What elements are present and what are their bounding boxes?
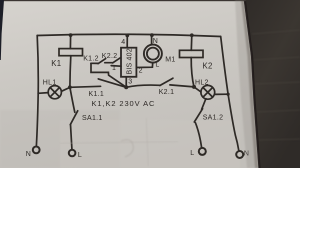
wire pin 2 run to M1	[136, 63, 152, 68]
svg-text:3: 3	[128, 78, 132, 85]
wire lead into pin 1	[111, 65, 121, 68]
lamp HL2	[201, 85, 215, 99]
svg-text:1: 1	[112, 65, 116, 72]
relay coil K2	[180, 50, 204, 57]
wire K2 feed drop	[190, 35, 193, 50]
contact K2.1 blade	[160, 78, 173, 85]
module BIS 402 box	[121, 48, 136, 77]
wire middle row left	[70, 86, 101, 87]
dark strip top edge	[0, 0, 246, 1]
svg-text:L: L	[155, 62, 159, 69]
node N dot	[150, 33, 154, 37]
dark area streaks	[252, 30, 300, 140]
svg-text:N: N	[153, 38, 158, 45]
lamp HL1	[48, 86, 61, 99]
faint ghost line horizontal	[60, 142, 178, 144]
relay coil K1	[59, 49, 83, 56]
svg-text:2: 2	[139, 68, 143, 75]
wire left border	[36, 36, 38, 146]
svg-text:4: 4	[121, 39, 125, 46]
node J4 dot	[190, 33, 194, 37]
svg-text:K1.1: K1.1	[89, 91, 105, 98]
wire K1 feed drop	[69, 35, 71, 49]
node J1 dot	[69, 33, 73, 37]
wire K2 branch vertical	[191, 58, 194, 87]
paper edge inner shade	[235, 0, 259, 168]
svg-text:M1: M1	[165, 56, 175, 63]
svg-text:L: L	[78, 152, 82, 159]
svg-text:K2: K2	[203, 61, 213, 70]
motor M1 outer circle	[144, 45, 162, 63]
svg-text:K2.1: K2.1	[159, 89, 175, 96]
svg-text:SA1.1: SA1.1	[82, 115, 103, 122]
node J7 dot	[227, 93, 230, 96]
paper sheet background	[0, 0, 300, 168]
paper shading mid	[60, 120, 240, 168]
wire HL1 left stub	[38, 92, 48, 95]
paper shading lower left	[0, 110, 120, 168]
contact K1.2 blade	[98, 59, 106, 64]
switch SA1.2 blade	[194, 109, 202, 122]
dark background top-right triangle	[244, 0, 300, 168]
wire K1 branch vertical	[70, 56, 75, 113]
wire SA1.2 lower lead	[195, 123, 201, 147]
node J2 dot	[68, 85, 72, 89]
wire pin 4 stub	[126, 35, 128, 47]
wire upper contact row lead 1	[91, 62, 98, 64]
wire middle row center	[126, 85, 160, 87]
terminal L right	[199, 148, 206, 155]
wire pin 3 stub	[125, 77, 127, 88]
node J6 dot pin3	[124, 85, 128, 89]
switch SA1.1 blade	[70, 111, 77, 125]
wire M1 feed from N node	[151, 35, 153, 45]
faint pencil mark	[121, 140, 133, 157]
wire middle row right	[170, 85, 194, 87]
wire HL2 right stub	[215, 93, 228, 95]
wire HL2 left stub	[194, 87, 201, 92]
terminal N bottom-right	[236, 151, 243, 158]
wire right border	[221, 37, 239, 151]
svg-text:BIS 402: BIS 402	[127, 48, 134, 74]
svg-text:HL2: HL2	[195, 80, 209, 87]
svg-text:HL1: HL1	[43, 79, 57, 86]
svg-text:K1.2: K1.2	[83, 56, 99, 63]
contact K2.2 blade	[113, 58, 121, 63]
svg-text:K1,K2 230V AC: K1,K2 230V AC	[92, 99, 156, 108]
terminal N bottom-left	[33, 147, 40, 154]
svg-text:N: N	[26, 151, 31, 158]
terminal L left	[69, 150, 76, 157]
wire SA1.1 lower lead	[71, 125, 72, 149]
node J3 dot pin4	[125, 34, 129, 38]
contact K1.1 blade	[98, 79, 126, 87]
faint ghost line vertical	[146, 118, 149, 166]
wire HL2 bottom stub	[202, 99, 206, 110]
wire top bus	[37, 34, 221, 36]
motor M1 inner circle	[147, 48, 159, 60]
wire upper contact row lead 2	[105, 62, 113, 64]
svg-text:K2.2: K2.2	[102, 53, 118, 60]
node J5 dot	[192, 85, 196, 89]
dark sliver left edge	[0, 0, 4, 60]
svg-text:K1: K1	[51, 59, 61, 68]
paper edge shadow	[241, 0, 259, 168]
wire HL1 right stub	[61, 87, 70, 91]
wire drop from contact row to node	[91, 64, 126, 88]
svg-text:SA1.2: SA1.2	[203, 114, 224, 121]
svg-text:L: L	[190, 150, 194, 157]
paper edge contact shadow	[245, 0, 260, 168]
